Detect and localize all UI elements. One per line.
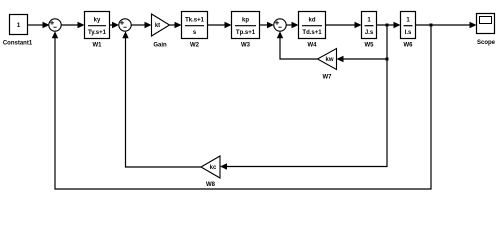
wire speed tap to W7	[337, 25, 388, 62]
svg-text:W7: W7	[323, 75, 333, 81]
svg-text:Gain: Gain	[153, 43, 167, 49]
wire W1 to Sum2	[110, 22, 120, 28]
wire W6 to Scope	[416, 22, 477, 28]
wire Gain to W2	[170, 22, 182, 28]
gain W7 kw	[318, 49, 337, 81]
svg-text:J.s: J.s	[365, 30, 374, 36]
block W1	[85, 12, 110, 49]
svg-text:W2: W2	[190, 43, 200, 49]
svg-text:W8: W8	[206, 182, 216, 188]
block W4	[299, 12, 326, 49]
block W3	[232, 12, 260, 49]
svg-text:kc: kc	[210, 165, 217, 171]
wire W8 to Sum2	[122, 31, 201, 167]
svg-text:W3: W3	[241, 43, 251, 49]
block Constant1	[3, 15, 33, 47]
sum Sum2	[119, 19, 131, 31]
svg-text:W5: W5	[365, 43, 375, 49]
wire Sum2 to Gain	[131, 22, 151, 28]
gain Gain kt	[152, 14, 170, 49]
svg-text:kd: kd	[308, 17, 315, 23]
wire outer feedback to Sum1	[52, 25, 431, 189]
junction W7 branch	[386, 58, 389, 61]
svg-text:ky: ky	[94, 17, 101, 23]
wire W2 to W3	[208, 22, 232, 28]
wire Constant1 to Sum1	[28, 22, 50, 28]
junction after W5	[386, 24, 389, 27]
svg-text:Tk.s+1: Tk.s+1	[185, 17, 205, 23]
svg-text:W4: W4	[308, 43, 318, 49]
svg-text:kw: kw	[325, 57, 333, 63]
svg-text:I.s: I.s	[405, 30, 412, 36]
svg-text:Tp.s+1: Tp.s+1	[236, 30, 256, 36]
gain W8 kc	[201, 156, 220, 188]
wire Sum3 to W4	[286, 22, 298, 28]
wire W5 to W6	[377, 22, 401, 28]
wire W3 to Sum3	[260, 22, 275, 28]
svg-text:W1: W1	[93, 43, 103, 49]
block W2	[182, 12, 208, 49]
wire W4 to W5	[326, 22, 362, 28]
svg-text:Td.s+1: Td.s+1	[302, 30, 322, 36]
svg-text:kt: kt	[155, 23, 160, 29]
block W6	[401, 12, 416, 49]
svg-text:kp: kp	[242, 17, 249, 23]
wire W7 to Sum3	[277, 31, 318, 59]
svg-text:Scope: Scope	[477, 40, 496, 46]
sum Sum1	[49, 19, 61, 31]
junction after W6	[430, 24, 433, 27]
svg-text:Ty.s+1: Ty.s+1	[88, 30, 107, 36]
svg-text:W6: W6	[404, 43, 414, 49]
wire tap down to W8	[220, 59, 387, 170]
block W5	[362, 12, 377, 49]
svg-text:Constant1: Constant1	[3, 41, 33, 47]
block Scope	[477, 14, 496, 47]
wire Sum1 to W1	[61, 22, 84, 28]
sum Sum3	[274, 19, 286, 31]
